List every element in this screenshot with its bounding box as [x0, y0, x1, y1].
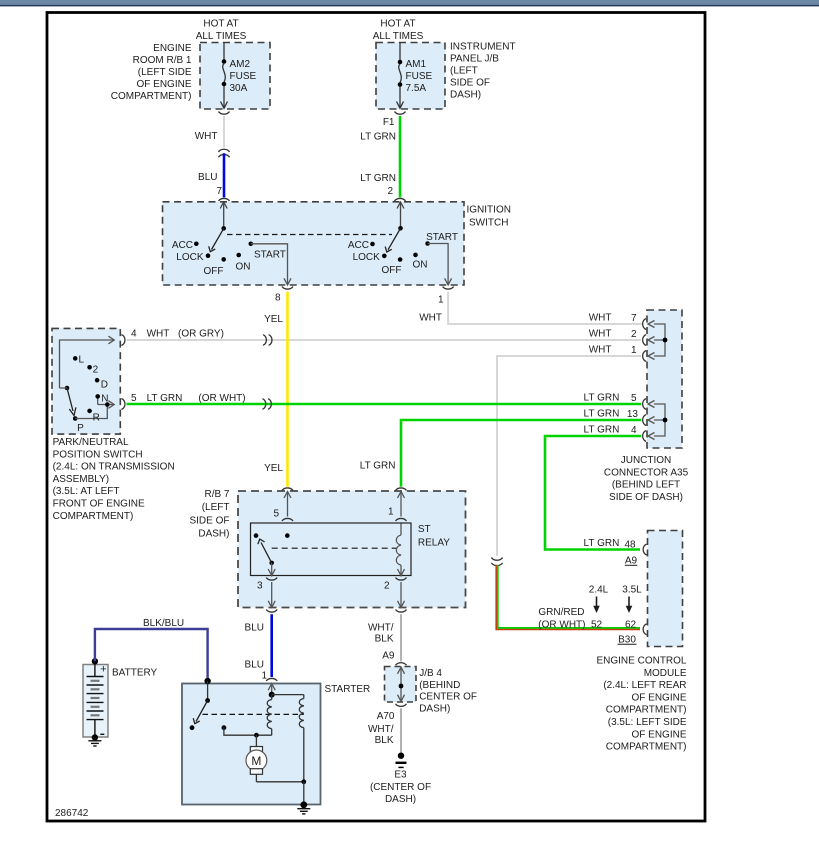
svg-text:30A: 30A: [230, 83, 248, 94]
svg-text:AM2: AM2: [230, 59, 251, 70]
svg-text:INSTRUMENT: INSTRUMENT: [450, 42, 516, 53]
wire BLU from relay pin 3 to starter pin 1: [245, 614, 272, 681]
svg-text:STARTER: STARTER: [325, 684, 371, 695]
connector arc at ECM pin 48: [625, 544, 647, 566]
A35 pin 2 entry: [589, 329, 646, 346]
svg-text:ENGINE: ENGINE: [153, 43, 192, 54]
svg-text:FRONT OF ENGINE: FRONT OF ENGINE: [53, 499, 145, 510]
svg-text:(OR WHT): (OR WHT): [538, 619, 585, 630]
svg-text:FUSE: FUSE: [406, 71, 433, 82]
svg-text:START: START: [254, 250, 286, 261]
connector arc at ECM pin B30: [618, 624, 647, 646]
connector arc at ignition pin 2: [395, 198, 406, 201]
connector arc at ignition pin 1: [438, 287, 454, 306]
svg-text:(2.4L: LEFT REAR: (2.4L: LEFT REAR: [603, 680, 686, 691]
svg-text:D: D: [101, 380, 108, 391]
svg-text:1: 1: [388, 507, 394, 518]
svg-text:COMPARTMENT): COMPARTMENT): [53, 511, 134, 522]
svg-text:MODULE: MODULE: [644, 668, 687, 679]
label ENGINE ROOM R/B 1 location: [111, 43, 192, 102]
svg-text:R: R: [93, 413, 100, 424]
A35 pin 4 entry: [584, 425, 647, 442]
svg-text:ALL TIMES: ALL TIMES: [373, 31, 424, 42]
header bar: [0, 0, 819, 6]
wire LT GRN from fuse AM1 to ignition pin 2: [360, 116, 400, 197]
connector arc at ignition pin 8: [275, 287, 293, 304]
starter linkage (dashed): [203, 713, 304, 715]
wire LT GRN (OR WHT) from P/N pin 5 to A35 pin 5: [127, 393, 642, 404]
svg-text:5: 5: [631, 393, 637, 404]
relay linkage (dashed): [272, 547, 397, 549]
svg-text:FUSE: FUSE: [230, 71, 257, 82]
starter motor M: [246, 735, 306, 784]
svg-text:DASH): DASH): [450, 90, 481, 101]
svg-text:(LEFT: (LEFT: [450, 66, 478, 77]
svg-text:LT GRN: LT GRN: [147, 393, 183, 404]
inline connector pair (WHT to GRN/RED splice): [491, 558, 502, 566]
svg-text:+: +: [100, 664, 106, 676]
svg-text:HOT AT: HOT AT: [203, 19, 238, 30]
connector arc at P/N pin 5: [121, 399, 125, 410]
ignition wafer 1 START output wire to pin 8: [251, 244, 291, 285]
svg-text:COMPARTMENT): COMPARTMENT): [606, 742, 687, 753]
svg-text:13: 13: [627, 409, 639, 420]
relay pin 2 lead: [384, 578, 407, 613]
svg-text:286742: 286742: [55, 808, 89, 819]
svg-text:2: 2: [384, 581, 390, 592]
svg-text:SWITCH: SWITCH: [469, 218, 508, 229]
svg-text:A9: A9: [382, 651, 395, 662]
starter box: [182, 684, 321, 805]
svg-text:WHT: WHT: [419, 313, 442, 324]
connector arc below fuse box 1: [219, 112, 230, 115]
svg-text:ALL TIMES: ALL TIMES: [196, 31, 247, 42]
inline connector )) on WHT (OR GRY) wire: [263, 335, 272, 345]
svg-text:WHT: WHT: [195, 131, 218, 142]
svg-text:2.4L: 2.4L: [589, 585, 609, 596]
svg-text:8: 8: [275, 293, 281, 304]
label R/B 7 (LEFT SIDE OF DASH): [189, 489, 229, 540]
wire LT GRN from A35 pin 4 to ECM pin 48: [545, 436, 641, 551]
wire BLU to ignition switch pin 7: [198, 153, 224, 197]
wire BLK/BLU from battery to starter: [95, 618, 208, 681]
svg-text:N: N: [101, 393, 108, 404]
svg-text:(LEFT SIDE: (LEFT SIDE: [138, 67, 192, 78]
ground E3 (center of dash): [370, 753, 431, 806]
inline connector )) on LT GRN (OR WHT) wire: [262, 399, 271, 409]
svg-text:OFF: OFF: [204, 266, 224, 277]
svg-text:BLK: BLK: [375, 634, 394, 645]
svg-text:7: 7: [217, 186, 223, 197]
svg-text:ON: ON: [413, 259, 428, 270]
wire WHT/BLK from relay pin 2 to J/B 4: [368, 614, 401, 662]
labels 2.4L / 3.5L with arrows: [538, 585, 642, 631]
svg-text:COMPARTMENT): COMPARTMENT): [111, 91, 192, 102]
svg-text:ACC: ACC: [348, 240, 369, 251]
svg-text:PANEL J/B: PANEL J/B: [450, 54, 499, 65]
battery ground: [88, 738, 101, 747]
svg-text:CONNECTOR A35: CONNECTOR A35: [604, 467, 689, 478]
starter hold-in coil: [272, 695, 304, 782]
label INSTRUMENT PANEL J/B location: [450, 42, 516, 101]
svg-text:SIDE OF: SIDE OF: [450, 78, 490, 89]
svg-text:SIDE OF: SIDE OF: [189, 515, 229, 526]
svg-text:OF ENGINE: OF ENGINE: [136, 79, 191, 90]
svg-text:ST: ST: [418, 524, 431, 535]
svg-text:WHT: WHT: [589, 313, 612, 324]
svg-text:P: P: [77, 423, 84, 434]
svg-text:3.5L: 3.5L: [622, 585, 642, 596]
svg-text:L: L: [79, 355, 85, 366]
svg-text:DASH): DASH): [419, 703, 450, 714]
connector arc at P/N pin 4: [121, 335, 125, 346]
svg-text:LT GRN: LT GRN: [360, 132, 396, 143]
relay pin 3 lead: [257, 563, 277, 612]
diagram border frame: [47, 13, 705, 822]
ignition wafer 2 START output wire to pin 1: [428, 244, 452, 286]
label HOT AT ALL TIMES (right): [373, 19, 424, 43]
engine control module box (dashed): [648, 531, 683, 647]
svg-text:BLK/BLU: BLK/BLU: [143, 618, 184, 629]
relay pin 1 lead: [388, 492, 407, 531]
svg-text:(BEHIND LEFT: (BEHIND LEFT: [612, 480, 680, 491]
svg-text:(OR WHT): (OR WHT): [198, 393, 245, 404]
wire WHT from A35 pin 1 down left side to splice: [497, 356, 641, 556]
svg-text:(BEHIND: (BEHIND: [419, 680, 460, 691]
label ENGINE CONTROL MODULE: [596, 656, 686, 753]
J/B 4 box (dashed): [385, 667, 417, 703]
wire WHT from fuse AM2: [195, 116, 224, 148]
wire GRN/RED (OR WHT) to ECM pin B30: [496, 565, 640, 629]
A35 pin 1 entry: [589, 345, 646, 362]
connector arc at J/B 4 top (A9): [396, 663, 407, 666]
svg-text:COMPARTMENT): COMPARTMENT): [606, 705, 687, 716]
svg-text:52: 52: [591, 619, 603, 630]
A35 internal bus (WHT group): [648, 321, 667, 360]
svg-text:5: 5: [131, 393, 137, 404]
starter battery terminal: [204, 678, 210, 684]
ignition switch box (dashed): [163, 202, 511, 285]
svg-text:YEL: YEL: [264, 314, 283, 325]
svg-text:ASSEMBLY): ASSEMBLY): [53, 474, 110, 485]
svg-text:WHT/: WHT/: [368, 623, 394, 634]
svg-text:(3.5L: LEFT SIDE: (3.5L: LEFT SIDE: [608, 717, 687, 728]
svg-text:7.5A: 7.5A: [406, 83, 427, 94]
A35 internal bus (LT GRN group): [648, 401, 667, 440]
svg-text:(2.4L: ON TRANSMISSION: (2.4L: ON TRANSMISSION: [53, 462, 175, 473]
svg-text:SIDE OF DASH): SIDE OF DASH): [609, 492, 683, 503]
svg-text:OF ENGINE: OF ENGINE: [631, 692, 686, 703]
svg-text:IGNITION: IGNITION: [467, 205, 511, 216]
svg-text:LT GRN: LT GRN: [584, 393, 620, 404]
svg-text:LOCK: LOCK: [176, 252, 204, 263]
wire YEL from ignition pin 8 to ST relay pin 5: [264, 292, 287, 487]
svg-text:A70: A70: [377, 711, 395, 722]
svg-text:(LEFT: (LEFT: [202, 502, 230, 513]
svg-text:GRN/RED: GRN/RED: [538, 607, 584, 618]
A35 pin 5 entry: [584, 393, 647, 410]
connector arc at ignition pin 7: [219, 198, 230, 201]
svg-text:AM1: AM1: [406, 59, 427, 70]
relay coil: [396, 524, 404, 576]
svg-text:PARK/NEUTRAL: PARK/NEUTRAL: [53, 437, 129, 448]
ignition switch wafer 1 (pin 7 input): [172, 202, 286, 277]
svg-text:BLU: BLU: [198, 172, 217, 183]
svg-text:ON: ON: [236, 262, 251, 273]
svg-text:WHT: WHT: [589, 345, 612, 356]
svg-text:YEL: YEL: [264, 463, 283, 474]
svg-text:JUNCTION: JUNCTION: [621, 455, 672, 466]
park/neutral position switch box (dashed): [52, 328, 120, 434]
J/B 4 internal lead: [398, 667, 405, 701]
connector arc at J/B 4 bottom (A70): [377, 704, 407, 722]
svg-text:RELAY: RELAY: [418, 537, 450, 548]
svg-text:CENTER OF: CENTER OF: [419, 692, 477, 703]
svg-text:7: 7: [631, 313, 637, 324]
svg-text:5: 5: [273, 509, 279, 520]
svg-text:BLU: BLU: [245, 660, 264, 671]
svg-text:M: M: [251, 754, 261, 768]
svg-text:LOCK: LOCK: [353, 252, 381, 263]
junction connector A35 box (dashed): [647, 310, 682, 448]
fuse AM1 7.5A symbol: [397, 43, 433, 109]
ignition switch wafer 2 (pin 2 input): [348, 202, 458, 276]
fuse block: INSTRUMENT PANEL J/B (dashed box): [376, 43, 445, 110]
svg-text:48: 48: [625, 540, 637, 551]
relay block R/B 7 outer box (dashed): [238, 491, 466, 608]
svg-text:WHT/: WHT/: [368, 724, 394, 735]
svg-text:POSITION SWITCH: POSITION SWITCH: [53, 449, 143, 460]
svg-text:R/B 7: R/B 7: [204, 489, 229, 500]
wire LT GRN from A35 pin 13 to ST relay pin 1: [360, 420, 641, 487]
label HOT AT ALL TIMES (left): [196, 19, 247, 43]
wire WHT from ignition pin 1 to junction connector A35 pin 7: [419, 292, 642, 324]
ignition switch mechanical linkage (dashed): [227, 234, 392, 236]
A35 pin 13 entry: [584, 409, 647, 426]
label PARK/NEUTRAL POSITION SWITCH: [53, 437, 175, 522]
svg-text:LT GRN: LT GRN: [584, 425, 620, 436]
svg-text:LT GRN: LT GRN: [360, 461, 396, 472]
svg-text:2: 2: [631, 329, 637, 340]
relay switch contacts: [254, 533, 290, 565]
svg-text:3: 3: [257, 581, 263, 592]
svg-text:F1: F1: [383, 117, 395, 128]
svg-text:OFF: OFF: [382, 265, 402, 276]
inline connector pair on wire (WHT to BLU): [218, 149, 229, 157]
starter solenoid switch: [190, 681, 227, 730]
svg-text:LT GRN: LT GRN: [584, 538, 620, 549]
svg-text:DASH): DASH): [198, 529, 229, 540]
svg-text:4: 4: [131, 329, 137, 340]
label J/B 4 (BEHIND CENTER OF DASH): [419, 668, 477, 714]
svg-text:1: 1: [438, 295, 444, 306]
label JUNCTION CONNECTOR A35: [604, 455, 689, 503]
connector arc at relay pin 1 (top of R/B): [396, 488, 407, 491]
svg-text:START: START: [426, 232, 458, 243]
ST relay inner box: [251, 523, 412, 576]
svg-text:2: 2: [93, 365, 99, 376]
svg-text:(3.5L: AT LEFT: (3.5L: AT LEFT: [53, 486, 120, 497]
svg-text:OF ENGINE: OF ENGINE: [631, 729, 686, 740]
svg-text:BLU: BLU: [245, 623, 264, 634]
svg-text:BLK: BLK: [375, 735, 394, 746]
svg-text:2: 2: [388, 186, 394, 197]
starter pin 1 entry lead: [268, 684, 275, 698]
svg-text:ACC: ACC: [172, 240, 193, 251]
starter pull-in coil: [267, 695, 272, 736]
starter contact feed wire: [224, 728, 272, 738]
svg-text:WHT: WHT: [147, 329, 170, 340]
fuse AM2 30A symbol: [221, 43, 257, 109]
wire WHT/BLK from J/B 4 to ground E3: [368, 708, 401, 753]
svg-text:(OR GRY): (OR GRY): [178, 329, 224, 340]
park/neutral switch internals: [60, 336, 115, 434]
svg-text:ENGINE CONTROL: ENGINE CONTROL: [596, 656, 686, 667]
relay pin 5 lead: [273, 492, 293, 536]
svg-text:WHT: WHT: [589, 329, 612, 340]
svg-text:ROOM R/B 1: ROOM R/B 1: [133, 55, 192, 66]
svg-text:LT GRN: LT GRN: [360, 173, 396, 184]
svg-text:62: 62: [625, 619, 637, 630]
connector arc at relay pin 5 (top of R/B): [282, 488, 293, 491]
battery: [83, 658, 158, 741]
connector arc F1 below fuse box 2: [383, 112, 406, 129]
svg-text:DASH): DASH): [385, 794, 416, 805]
starter ground: [297, 782, 310, 814]
svg-text:LT GRN: LT GRN: [584, 409, 620, 420]
svg-text:4: 4: [631, 425, 637, 436]
A35 pin 7 entry: [589, 313, 646, 330]
fuse block: ENGINE ROOM R/B 1 (dashed box): [200, 43, 270, 110]
connector arc at starter pin 1: [266, 678, 277, 681]
svg-text:J/B 4: J/B 4: [419, 668, 442, 679]
svg-text:E3: E3: [394, 770, 407, 781]
svg-text:(CENTER OF: (CENTER OF: [370, 782, 431, 793]
svg-text:HOT AT: HOT AT: [380, 19, 415, 30]
wire WHT (OR GRY) from park/neutral pin 4 to A35 pin 2: [127, 329, 642, 340]
svg-text:1: 1: [631, 345, 637, 356]
svg-text:BATTERY: BATTERY: [112, 667, 158, 678]
